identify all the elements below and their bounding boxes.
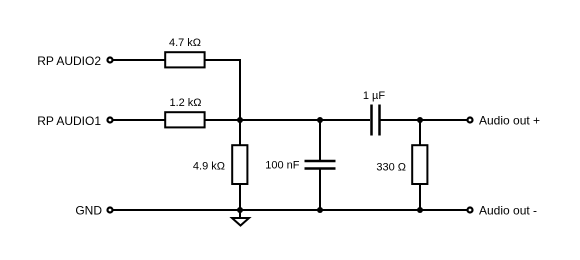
junction GND-R4 <box>417 207 423 213</box>
junction node C <box>417 117 423 123</box>
terminal GND <box>108 208 113 213</box>
ground symbol triangle <box>232 218 249 226</box>
capacitor C2 1uF right plate <box>378 105 381 136</box>
svg-text:1.2 kΩ: 1.2 kΩ <box>169 97 201 109</box>
resistor R2 1.2k <box>165 112 204 127</box>
capacitor C1 100nF top plate <box>305 160 336 163</box>
ground symbol stub <box>239 210 241 218</box>
terminal RP AUDIO1 <box>108 118 113 123</box>
svg-text:1 µF: 1 µF <box>363 90 386 102</box>
junction GND-R3 <box>237 207 243 213</box>
wire C1 to GND rail <box>319 170 321 211</box>
wire R1 to corner <box>205 59 240 61</box>
svg-text:4.9 kΩ: 4.9 kΩ <box>193 161 225 173</box>
wire RP AUDIO1 to R2 <box>113 119 165 121</box>
terminal RP AUDIO2 <box>108 58 113 63</box>
wire node A down to R3 <box>239 120 241 146</box>
resistor R4 330 ohm <box>412 145 427 184</box>
wire C2 to Audio out + <box>381 119 468 121</box>
svg-text:Audio out -: Audio out - <box>479 204 537 218</box>
svg-text:GND: GND <box>75 204 102 218</box>
wire RP AUDIO2 to R1 <box>113 59 165 61</box>
resistor R1 4.7k <box>165 52 204 67</box>
wire node B down to C1 <box>319 120 321 160</box>
wire R3 to GND rail <box>239 184 241 210</box>
capacitor C1 100nF bottom plate <box>305 167 336 170</box>
wire node C down to R4 <box>419 120 421 146</box>
svg-text:100 nF: 100 nF <box>265 160 300 172</box>
wire corner down to node A <box>239 59 241 120</box>
resistor R3 4.9k <box>232 145 247 184</box>
svg-text:RP AUDIO1: RP AUDIO1 <box>37 114 101 128</box>
capacitor C2 1uF left plate <box>370 105 373 136</box>
junction GND-C1 <box>317 207 323 213</box>
junction node A <box>237 117 243 123</box>
svg-text:RP AUDIO2: RP AUDIO2 <box>37 54 101 68</box>
wire R4 to GND rail <box>419 184 421 210</box>
wire GND rail <box>113 209 467 211</box>
terminal Audio out + <box>468 118 473 123</box>
terminal Audio out - <box>468 208 473 213</box>
svg-text:330 Ω: 330 Ω <box>376 162 406 174</box>
svg-text:4.7 kΩ: 4.7 kΩ <box>169 37 201 49</box>
wire R2 to C2 left <box>205 119 370 121</box>
junction node B <box>317 117 323 123</box>
svg-text:Audio out +: Audio out + <box>479 114 540 128</box>
